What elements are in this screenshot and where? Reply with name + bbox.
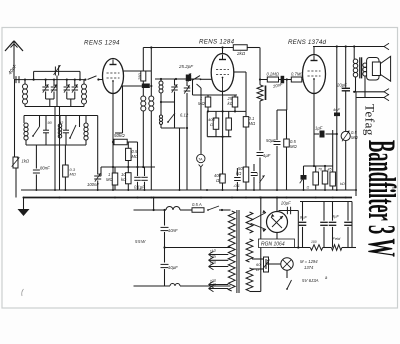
- svg-text:7A: 7A: [198, 157, 203, 161]
- svg-text:45: 45: [328, 168, 332, 172]
- svg-text:20µF: 20µF: [336, 83, 347, 88]
- svg-text:M = 1294: M = 1294: [300, 259, 318, 264]
- svg-text:4nF: 4nF: [333, 107, 340, 112]
- svg-text:1374: 1374: [304, 265, 314, 270]
- svg-text:0.5 A: 0.5 A: [192, 202, 202, 207]
- svg-text:10nF: 10nF: [168, 228, 178, 233]
- svg-text:100nF: 100nF: [87, 182, 99, 187]
- svg-text:kΩ: kΩ: [236, 171, 242, 176]
- svg-text:5V 6J3A: 5V 6J3A: [302, 278, 319, 283]
- svg-text:MΩ: MΩ: [351, 135, 358, 140]
- svg-text:Ω: Ω: [210, 122, 213, 127]
- svg-text:kΩ: kΩ: [340, 182, 345, 186]
- svg-text:8µF: 8µF: [300, 215, 308, 220]
- svg-text:MΩ: MΩ: [106, 177, 113, 182]
- svg-text:10µF: 10µF: [168, 265, 178, 270]
- svg-text:RGN 1064: RGN 1064: [261, 242, 285, 248]
- svg-text:8µF: 8µF: [332, 214, 340, 219]
- svg-text:100: 100: [311, 240, 317, 244]
- svg-text:kΩ: kΩ: [228, 101, 234, 106]
- svg-text:250: 250: [137, 73, 142, 81]
- svg-text:MΩ: MΩ: [198, 101, 205, 106]
- svg-text:MΩ: MΩ: [249, 121, 256, 126]
- svg-text:RENS 1294: RENS 1294: [84, 40, 120, 47]
- svg-text:MΩ: MΩ: [290, 144, 297, 149]
- svg-text:Bandfilter 3 W: Bandfilter 3 W: [360, 140, 400, 257]
- svg-text:20µF: 20µF: [280, 201, 291, 206]
- svg-text:55W: 55W: [135, 239, 146, 244]
- svg-text:Ω: Ω: [256, 267, 259, 272]
- svg-text:kΩ: kΩ: [121, 177, 127, 182]
- svg-text:2kΩ: 2kΩ: [236, 51, 246, 56]
- svg-text:Tefag: Tefag: [363, 104, 378, 136]
- svg-text:50kΩ: 50kΩ: [114, 133, 125, 138]
- svg-text:MΩ: MΩ: [70, 172, 76, 177]
- svg-text:Ω: Ω: [307, 186, 310, 190]
- svg-text:Feld: Feld: [333, 236, 342, 241]
- svg-text:0.2MΩ: 0.2MΩ: [267, 72, 280, 77]
- svg-text:0.1µF: 0.1µF: [134, 185, 145, 190]
- svg-text:RENS 1374d: RENS 1374d: [288, 39, 326, 46]
- svg-text:-0.1: -0.1: [233, 183, 240, 188]
- svg-text:1kΩ: 1kΩ: [22, 159, 30, 164]
- svg-text:50µF: 50µF: [266, 138, 276, 143]
- svg-text:1µF: 1µF: [315, 126, 323, 131]
- svg-text:25.2pF: 25.2pF: [178, 64, 193, 69]
- svg-text:RENS 1284: RENS 1284: [199, 39, 235, 46]
- svg-text:1: 1: [256, 172, 258, 177]
- svg-text:80nF: 80nF: [40, 166, 50, 171]
- svg-text:70: 70: [318, 168, 322, 172]
- svg-text:1µF: 1µF: [263, 153, 271, 158]
